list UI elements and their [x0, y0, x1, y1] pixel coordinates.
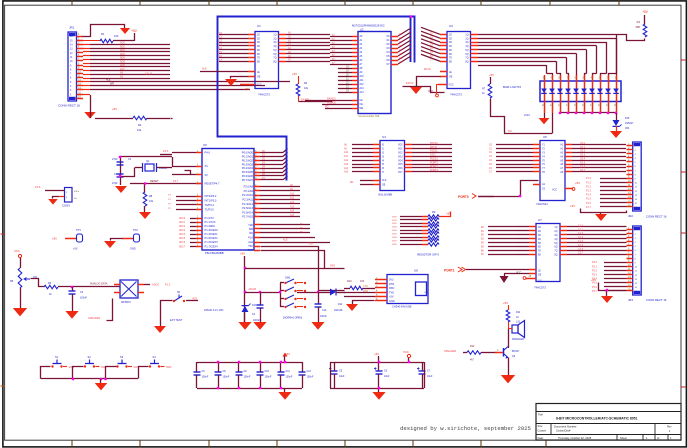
svg-text:SPEAKER: SPEAKER [444, 349, 456, 353]
svg-text:INT1/P3.3: INT1/P3.3 [205, 199, 217, 203]
svg-text:P0CS0: P0CS0 [430, 142, 438, 145]
svg-text:ALE: ALE [283, 239, 288, 242]
svg-text:EXT TEST: EXT TEST [170, 318, 183, 322]
svg-text:C1.4: C1.4 [578, 240, 584, 243]
svg-text:8Q: 8Q [465, 61, 468, 63]
svg-text:CLK: CLK [382, 180, 387, 182]
svg-text:8Q: 8Q [273, 61, 276, 63]
svg-text:OE: OE [382, 185, 386, 187]
svg-text:A12: A12 [290, 201, 295, 204]
svg-text:Size: Size [538, 425, 543, 428]
svg-text:A12: A12 [360, 83, 365, 86]
svg-text:JR1: JR1 [69, 26, 75, 30]
svg-text:P1.5/CEX2: P1.5/CEX2 [205, 236, 219, 240]
svg-text:P1.3/CEX0: P1.3/CEX0 [205, 228, 219, 232]
svg-text:OE: OE [449, 77, 453, 79]
svg-text:IOC2: IOC2 [430, 154, 436, 157]
svg-text:ADC0: ADC0 [179, 217, 186, 220]
svg-text:ADC3: ADC3 [179, 229, 186, 232]
svg-text:ALE: ALE [202, 68, 207, 71]
svg-text:7D: 7D [538, 251, 541, 253]
svg-text:VCC: VCC [14, 249, 20, 253]
svg-text:100nF: 100nF [320, 315, 327, 318]
svg-text:ADC6: ADC6 [179, 241, 186, 244]
svg-text:D15: D15 [625, 117, 630, 120]
svg-text:P0.5/AD5: P0.5/AD5 [242, 170, 254, 174]
svg-text:Title: Title [538, 413, 543, 417]
svg-text:3Q: 3Q [273, 42, 276, 44]
svg-text:RXD: RXD [389, 287, 394, 290]
svg-text:P2.6/A14: P2.6/A14 [242, 210, 253, 214]
svg-text:P3.1: P3.1 [592, 265, 598, 268]
svg-text:P3.6: P3.6 [592, 286, 598, 289]
svg-text:CONN RECT 16: CONN RECT 16 [58, 104, 80, 108]
svg-text:Sheet: Sheet [620, 436, 627, 440]
svg-text:A15: A15 [344, 171, 349, 174]
svg-text:Custom: Custom [538, 430, 547, 433]
svg-text:100nF: 100nF [80, 297, 88, 300]
svg-text:I/O4: I/O4 [398, 160, 403, 162]
svg-text:WE: WE [360, 108, 364, 110]
svg-text:D13: D13 [252, 304, 257, 307]
svg-text:ADC7: ADC7 [179, 245, 186, 248]
svg-text:DTR: DTR [389, 283, 394, 286]
svg-text:SW8: SW8 [392, 244, 398, 246]
svg-text:(NORMAL OPEN): (NORMAL OPEN) [283, 317, 302, 320]
svg-text:P4.7: P4.7 [173, 179, 179, 183]
svg-text:P2.3/A11: P2.3/A11 [242, 198, 253, 202]
svg-text:SW1: SW1 [392, 220, 398, 222]
svg-text:27pF: 27pF [112, 158, 118, 161]
svg-text:6Q: 6Q [554, 247, 557, 249]
svg-text:RXD: RXD [330, 265, 335, 268]
svg-text:USB: USB [425, 292, 430, 294]
svg-text:C1.6: C1.6 [578, 248, 584, 251]
svg-text:PORT0: PORT0 [430, 161, 439, 164]
svg-text:+5V: +5V [489, 73, 494, 77]
svg-text:CONN RECT 16: CONN RECT 16 [646, 215, 667, 219]
svg-text:A14: A14 [290, 210, 295, 213]
svg-text:P1.2: P1.2 [586, 185, 592, 188]
svg-text:VCC: VCC [403, 350, 409, 354]
svg-text:100nF: 100nF [244, 376, 251, 379]
svg-text:P1.4: P1.4 [586, 194, 592, 197]
svg-text:+5V: +5V [389, 296, 394, 299]
svg-text:2Q: 2Q [465, 38, 468, 40]
svg-text:100nF: 100nF [265, 376, 272, 379]
svg-text:100nF: 100nF [202, 376, 209, 379]
svg-text:GND: GND [130, 248, 136, 251]
svg-text:I/O2: I/O2 [398, 153, 403, 155]
svg-text:+5V: +5V [52, 237, 57, 241]
svg-text:8-BIT MICROCONTROLLER/ATC-SCHE: 8-BIT MICROCONTROLLER/ATC-SCHEMATIC 8051 [556, 417, 638, 421]
svg-text:C14: C14 [322, 309, 327, 312]
svg-text:ADC1: ADC1 [179, 221, 186, 224]
svg-text:4Q: 4Q [465, 46, 468, 48]
svg-text:P4.6: P4.6 [205, 151, 211, 155]
svg-text:TXD: TXD [389, 291, 394, 294]
svg-text:1D: 1D [538, 227, 541, 229]
svg-text:100: 100 [114, 34, 119, 38]
svg-text:SW0: SW0 [392, 216, 398, 218]
svg-text:M27C512/RAM628128 D/C: M27C512/RAM628128 D/C [352, 24, 385, 28]
svg-text:BAR LIGHT2: BAR LIGHT2 [503, 85, 521, 89]
svg-text:CON3: CON3 [62, 204, 70, 208]
svg-text:ANALOG DATA: ANALOG DATA [90, 283, 108, 286]
svg-text:R11: R11 [516, 311, 521, 314]
svg-text:P0.2/AD2: P0.2/AD2 [242, 158, 254, 162]
svg-text:X2: X2 [205, 173, 209, 177]
svg-text:I/O6: I/O6 [398, 168, 403, 170]
svg-text:100nF: 100nF [253, 319, 260, 322]
svg-text:VCC: VCC [552, 189, 557, 192]
svg-text:VCC: VCC [516, 272, 521, 275]
svg-text:27pF: 27pF [112, 182, 118, 185]
svg-text:GAL16V8B: GAL16V8B [378, 193, 392, 197]
svg-text:AD6: AD6 [120, 64, 125, 67]
svg-text:SW1: SW1 [285, 276, 291, 280]
svg-text:T0/P3.4: T0/P3.4 [205, 203, 215, 207]
svg-text:JR2: JR2 [628, 214, 633, 218]
svg-text:AD4: AD4 [120, 57, 125, 60]
svg-text:100nF: 100nF [286, 376, 293, 379]
svg-text:+5V: +5V [112, 107, 117, 111]
svg-text:designed by w.sirichote, septe: designed by w.sirichote, september 2025 [400, 425, 531, 432]
svg-text:I/O5: I/O5 [398, 164, 403, 166]
svg-text:X1: X1 [205, 164, 209, 168]
svg-text:ALE: ALE [106, 79, 111, 82]
svg-text:VCC: VCC [449, 84, 454, 87]
svg-text:C0.1: C0.1 [580, 146, 586, 149]
svg-text:1N5231 6.1V 10%: 1N5231 6.1V 10% [204, 309, 224, 312]
svg-text:4Q: 4Q [554, 239, 557, 241]
svg-text:RXD: RXD [248, 249, 253, 252]
svg-text:BC547: BC547 [512, 350, 520, 353]
svg-text:ROMCS: ROMCS [327, 102, 336, 105]
svg-text:1Q: 1Q [465, 35, 468, 37]
svg-text:C1.1: C1.1 [578, 228, 584, 231]
svg-text:S1: S1 [55, 355, 59, 359]
svg-text:P0.6/AD6: P0.6/AD6 [242, 174, 254, 178]
svg-text:6D: 6D [257, 54, 260, 56]
svg-text:8Q: 8Q [554, 255, 557, 257]
svg-text:P4.6: P4.6 [163, 149, 169, 153]
svg-text:C0.6: C0.6 [580, 165, 586, 168]
svg-text:8D: 8D [449, 61, 452, 63]
svg-text:A13: A13 [360, 87, 365, 90]
svg-text:P1.0/T2: P1.0/T2 [205, 216, 215, 220]
svg-text:C1.0: C1.0 [578, 224, 584, 227]
svg-text:74HC573: 74HC573 [450, 93, 462, 97]
svg-text:EPC0/: EPC0/ [430, 146, 437, 149]
svg-text:LE: LE [449, 72, 452, 74]
svg-text:microcontroller 628: microcontroller 628 [358, 115, 380, 118]
svg-text:SW6: SW6 [392, 237, 398, 239]
svg-text:RESET/P4.7: RESET/P4.7 [205, 182, 221, 186]
svg-text:EPC0/: EPC0/ [406, 81, 414, 85]
svg-text:JR3: JR3 [625, 127, 630, 130]
svg-text:+5V: +5V [131, 29, 138, 33]
svg-text:RL7: RL7 [508, 130, 513, 133]
svg-text:6D: 6D [449, 54, 452, 56]
svg-text:1N4148: 1N4148 [334, 309, 343, 312]
svg-text:Thursday, October 02, 2025: Thursday, October 02, 2025 [558, 436, 592, 440]
svg-text:RAMCS: RAMCS [327, 98, 336, 101]
svg-text:AD5: AD5 [120, 60, 125, 63]
svg-text:1D: 1D [449, 35, 452, 37]
svg-text:OE: OE [257, 77, 261, 79]
svg-text:C1.5: C1.5 [578, 244, 584, 247]
svg-text:I/O0: I/O0 [398, 145, 403, 147]
svg-text:CE: CE [360, 100, 364, 102]
svg-text:P1.2: P1.2 [165, 283, 171, 287]
svg-text:I/O1: I/O1 [398, 149, 403, 151]
svg-text:6Q: 6Q [273, 54, 276, 56]
svg-text:ADC0: ADC0 [152, 283, 159, 287]
svg-text:U3: U3 [449, 24, 453, 28]
svg-text:S2: S2 [88, 355, 92, 359]
svg-text:1Q: 1Q [554, 227, 557, 229]
svg-text:Date:: Date: [538, 436, 544, 440]
svg-text:INT1: INT1 [192, 298, 198, 301]
svg-text:2Q: 2Q [273, 38, 276, 40]
svg-text:C0.0: C0.0 [580, 142, 586, 145]
svg-text:TP2: TP2 [133, 228, 138, 232]
svg-text:Document Number: Document Number [554, 425, 577, 429]
svg-text:A12: A12 [344, 159, 349, 162]
svg-text:I/O7: I/O7 [398, 172, 403, 174]
svg-text:S3: S3 [120, 355, 124, 359]
svg-text:OE: OE [360, 104, 364, 106]
svg-text:10uF: 10uF [339, 375, 345, 378]
svg-text:R4: R4 [138, 123, 142, 127]
svg-text:+5V: +5V [570, 204, 575, 208]
svg-text:6Q: 6Q [465, 54, 468, 56]
svg-text:5D: 5D [538, 243, 541, 245]
svg-text:4Q: 4Q [273, 46, 276, 48]
svg-text:3D: 3D [449, 42, 452, 44]
svg-text:CONN RECT 16: CONN RECT 16 [646, 298, 667, 302]
svg-text:A13: A13 [290, 205, 295, 208]
svg-text:5D: 5D [449, 50, 452, 52]
svg-text:RD: RD [350, 182, 354, 184]
svg-text:R1: R1 [101, 32, 105, 36]
svg-text:3D: 3D [538, 235, 541, 237]
svg-text:7Q: 7Q [465, 58, 468, 60]
svg-text:C1.3: C1.3 [578, 236, 584, 239]
svg-text:SPEAKER: SPEAKER [88, 316, 100, 320]
svg-text:R9: R9 [432, 210, 436, 214]
svg-text:74HC573: 74HC573 [534, 286, 546, 290]
svg-text:P3.7: P3.7 [592, 290, 598, 293]
svg-text:4D: 4D [449, 46, 452, 48]
svg-text:PORT0: PORT0 [458, 195, 469, 199]
svg-text:+BULB: +BULB [248, 288, 256, 291]
svg-text:U7: U7 [538, 218, 542, 222]
svg-text:5Q: 5Q [273, 50, 276, 52]
svg-text:P1.4/CEX1: P1.4/CEX1 [205, 232, 219, 236]
svg-text:VCC: VCC [538, 280, 543, 282]
svg-text:P4.8: P4.8 [35, 185, 41, 189]
svg-text:+5V: +5V [591, 278, 596, 282]
svg-text:C0.5: C0.5 [580, 161, 586, 164]
svg-text:C0.3: C0.3 [580, 154, 586, 157]
svg-text:U5: U5 [543, 135, 547, 139]
svg-text:P1.7/CEX4: P1.7/CEX4 [205, 245, 219, 249]
svg-text:P0.1/AD1: P0.1/AD1 [242, 155, 254, 159]
svg-text:PORT2: PORT2 [430, 169, 439, 172]
svg-text:AD1: AD1 [120, 45, 125, 48]
svg-text:P2CS1: P2CS1 [430, 150, 438, 153]
svg-text:P2.1/A9: P2.1/A9 [244, 189, 254, 193]
svg-text:C1.2: C1.2 [578, 232, 584, 235]
svg-text:CH340-INV/USB: CH340-INV/USB [392, 305, 412, 309]
svg-text:RESISTOR SIP 9: RESISTOR SIP 9 [417, 253, 439, 257]
svg-text:VCC: VCC [428, 90, 433, 93]
svg-text:P2.7/A15: P2.7/A15 [242, 215, 253, 219]
svg-text:A10: A10 [290, 192, 295, 195]
svg-text:5Q: 5Q [554, 243, 557, 245]
svg-text:C0..8: C0..8 [145, 72, 152, 76]
svg-text:R10: R10 [347, 280, 352, 283]
svg-text:8D: 8D [257, 61, 260, 63]
svg-text:P1.6: P1.6 [586, 202, 592, 205]
svg-text:LE: LE [538, 271, 541, 273]
svg-text:A10: A10 [344, 151, 349, 154]
svg-text:ALE: ALE [248, 241, 253, 244]
svg-text:7D: 7D [257, 58, 260, 60]
svg-text:CustomDoc#: CustomDoc# [556, 430, 571, 433]
svg-text:P0.7/AD7: P0.7/AD7 [242, 178, 254, 182]
svg-text:100: 100 [360, 280, 365, 283]
svg-text:Rev: Rev [667, 426, 672, 429]
svg-text:+5V: +5V [73, 248, 78, 251]
svg-text:WR: WR [110, 83, 114, 86]
svg-text:P0CS3: P0CS3 [430, 158, 438, 161]
svg-text:6D: 6D [538, 247, 541, 249]
svg-text:C13: C13 [307, 370, 312, 373]
svg-text:P1.7: P1.7 [586, 206, 592, 209]
svg-text:C0.2: C0.2 [580, 150, 586, 153]
svg-text:100nF: 100nF [223, 376, 230, 379]
svg-text:1Q: 1Q [273, 35, 276, 37]
svg-text:74HC573: 74HC573 [258, 93, 270, 97]
svg-text:T1R: T1R [248, 224, 253, 227]
svg-text:P2.4/A12: P2.4/A12 [242, 202, 253, 206]
svg-text:8D: 8D [538, 255, 541, 257]
svg-text:RESET: RESET [150, 179, 159, 183]
svg-text:+5V: +5V [575, 181, 580, 185]
svg-text:AD2: AD2 [120, 49, 125, 52]
svg-text:P0.3/AD3: P0.3/AD3 [242, 162, 254, 166]
svg-text:T0C: T0C [248, 245, 253, 248]
svg-text:LV13: LV13 [524, 114, 530, 117]
svg-text:ADC2: ADC2 [179, 225, 186, 228]
svg-text:SW4: SW4 [166, 366, 172, 369]
svg-text:I/O3: I/O3 [398, 156, 403, 158]
svg-text:2Q: 2Q [554, 231, 557, 233]
svg-text:EPC0/: EPC0/ [424, 68, 431, 71]
svg-text:AD7: AD7 [120, 68, 125, 71]
svg-text:OE: OE [538, 275, 542, 277]
svg-text:P8xC66x8HBB: P8xC66x8HBB [205, 251, 224, 255]
svg-text:+5V: +5V [244, 87, 249, 91]
svg-text:of: of [657, 436, 659, 440]
svg-text:RD: RD [249, 232, 253, 235]
svg-text:LE: LE [257, 72, 260, 74]
svg-text:4k7: 4k7 [470, 359, 475, 362]
svg-text:+5V: +5V [240, 252, 245, 256]
svg-text:PORT1: PORT1 [444, 269, 455, 273]
svg-text:SW2: SW2 [392, 223, 398, 225]
svg-text:P3.3: P3.3 [592, 274, 598, 277]
svg-text:2D: 2D [538, 231, 541, 233]
svg-text:A14: A14 [344, 167, 349, 170]
svg-text:74HC541: 74HC541 [536, 202, 548, 206]
svg-text:40Pa: 40Pa [74, 191, 80, 193]
svg-text:U1: U1 [257, 24, 261, 28]
svg-text:+5V: +5V [642, 10, 649, 14]
svg-text:P0.0/AD0: P0.0/AD0 [242, 151, 254, 155]
svg-text:5Q: 5Q [465, 50, 468, 52]
svg-text:P0.4/AD4: P0.4/AD4 [242, 166, 254, 170]
svg-text:TP1: TP1 [76, 228, 81, 232]
svg-text:U6: U6 [203, 143, 207, 147]
svg-text:SW7: SW7 [392, 240, 398, 242]
svg-text:R3: R3 [637, 20, 641, 24]
svg-text:D12: D12 [338, 303, 343, 306]
svg-text:AD0: AD0 [120, 42, 125, 45]
svg-text:7D: 7D [449, 58, 452, 60]
svg-text:GND: GND [389, 300, 395, 303]
svg-text:SPEAKER: SPEAKER [512, 338, 524, 341]
svg-text:P3.5: P3.5 [592, 282, 598, 285]
svg-text:C0.7: C0.7 [580, 169, 586, 172]
svg-text:7Q: 7Q [554, 251, 557, 253]
svg-text:P1.1: P1.1 [586, 181, 592, 184]
svg-text:ADC4: ADC4 [179, 233, 186, 236]
svg-text:C1.7: C1.7 [578, 252, 584, 255]
svg-text:PORT1: PORT1 [430, 165, 439, 168]
svg-text:7Q: 7Q [273, 58, 276, 60]
svg-text:AD3: AD3 [120, 53, 125, 56]
svg-text:SW3: SW3 [392, 227, 398, 229]
svg-text:4N35/P2: 4N35/P2 [121, 301, 131, 304]
svg-text:10k: 10k [137, 128, 142, 132]
svg-text:P1.6/CEX3: P1.6/CEX3 [205, 240, 219, 244]
svg-text:C0.4: C0.4 [580, 158, 586, 161]
svg-text:P2.5/A13: P2.5/A13 [242, 206, 253, 210]
svg-text:SW4: SW4 [392, 230, 398, 232]
svg-text:PLA: PLA [248, 237, 253, 240]
svg-text:T1/P3.5: T1/P3.5 [205, 208, 215, 212]
svg-text:TXD: TXD [363, 285, 368, 288]
svg-text:2D: 2D [257, 38, 260, 40]
svg-text:TXD: TXD [308, 243, 313, 246]
svg-text:A15: A15 [290, 214, 295, 217]
svg-text:+5V: +5V [292, 72, 297, 76]
svg-text:10uF: 10uF [384, 375, 390, 378]
svg-text:3V3: 3V3 [389, 279, 394, 282]
svg-text:S4: S4 [153, 355, 157, 359]
svg-text:SW5: SW5 [392, 234, 398, 236]
svg-text:JR3: JR3 [628, 298, 633, 302]
svg-text:680: 680 [636, 25, 641, 29]
svg-text:5D: 5D [257, 50, 260, 52]
svg-text:C10: C10 [265, 370, 270, 373]
svg-text:3Q: 3Q [465, 42, 468, 44]
svg-text:A14: A14 [360, 91, 365, 94]
